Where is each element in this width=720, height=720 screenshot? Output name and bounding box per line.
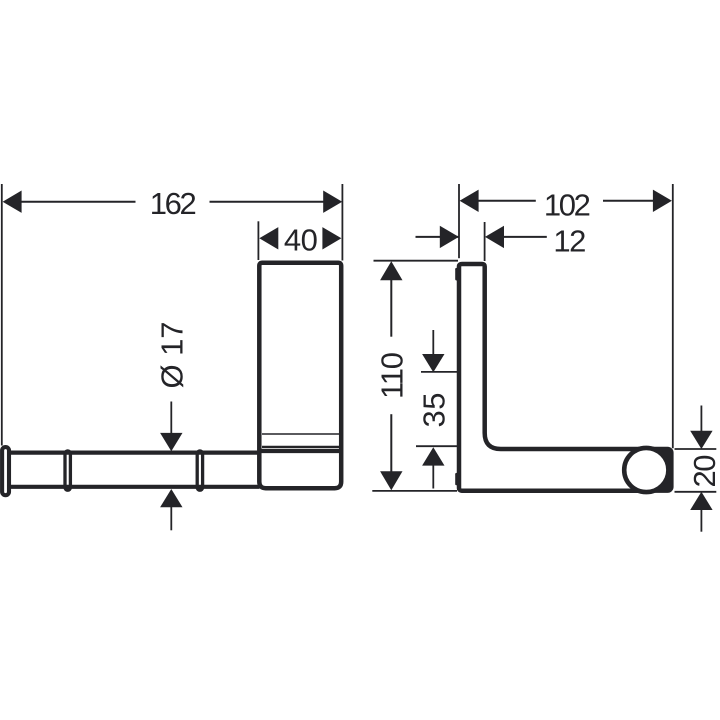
arrow left 102 [460,190,479,212]
dim 20 upper tail [700,406,702,433]
extension line left of 102 [458,184,460,258]
svg-text:12: 12 [553,223,586,258]
extension line bottom of 110 [372,490,457,492]
arrow up to rod bottom [160,489,182,507]
arrow down 35 [422,354,444,372]
dim 20 lower tail [700,508,702,532]
arrow up 110 [380,261,402,280]
svg-text:162: 162 [150,186,197,221]
L-profile top/right contour [462,264,642,449]
wall pin top [455,268,458,281]
wall plate (front) [259,263,341,488]
extension line left of 162 [1,184,3,446]
L-profile left/bottom contour [459,264,642,491]
svg-text:35: 35 [417,393,452,428]
dim 35 lower tail [432,465,434,489]
dim 35 upper tail [432,330,434,354]
arrow up 35 [422,447,444,465]
extension line bottom of 35 [416,445,457,447]
leader line above rod [170,402,172,435]
arrow left 40 [259,227,278,249]
rod collar tick 2 [197,451,202,490]
rod top edge [11,451,260,455]
rod line across plate [260,449,342,453]
dimension line 162 [21,201,136,203]
extension line right of 162/40 [341,184,343,261]
plate seam thin line [262,433,339,435]
arrow left 162 [3,191,22,213]
dim 12 left tail [416,236,460,238]
leader line below rod [170,507,172,531]
svg-text:102: 102 [544,187,591,222]
svg-text:20: 20 [687,455,720,488]
dimension line 102 [478,200,536,202]
svg-text:40: 40 [284,222,318,257]
arrow right 102 [653,190,672,212]
arrow down 20 [690,431,712,449]
arrow down to rod top [160,433,182,451]
rod end roller circle [624,448,668,492]
dimension line 110 [390,279,392,337]
extension line right of 102 [672,184,674,448]
dim 12 right tail [504,236,547,238]
extension line top of 35 [421,371,457,373]
extension line right of 12 [484,222,486,261]
arrow down 110 [380,471,402,490]
extension line left of 40 [257,221,259,260]
arrow up 20 [690,492,712,510]
rod collar tick 1 [65,451,70,490]
extension line top of 20 [675,448,717,450]
arrow right 40 [322,227,341,249]
svg-text:110: 110 [375,352,410,399]
svg-text:Ø 17: Ø 17 [154,322,189,389]
arrow left-pointing at right ext of 12 [485,226,504,248]
extension line top of 110 [374,260,459,262]
arrow right-pointing at left ext [440,226,459,248]
rod bottom edge [11,485,260,489]
extension line bottom of 20 [675,491,717,493]
wall pin bottom [455,473,458,485]
rod end block [634,447,674,493]
arrow right 162 [323,191,342,213]
rod end cap [2,447,9,495]
plate seam medium line [262,446,339,448]
